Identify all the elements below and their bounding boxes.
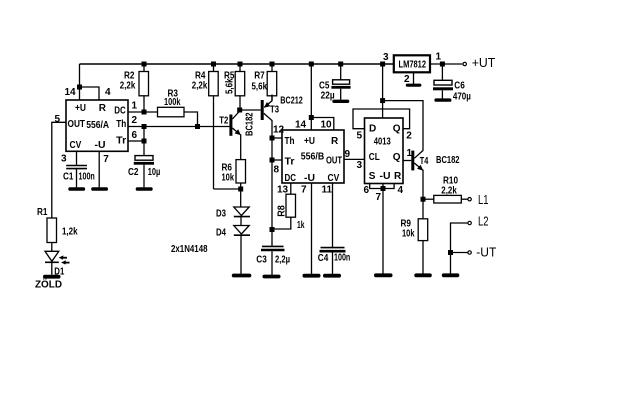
- resistor R10: [423, 195, 468, 203]
- node out-C6: [440, 62, 445, 67]
- svg-text:3: 3: [61, 154, 67, 165]
- capacitor C2 10u: [134, 156, 154, 188]
- svg-text:Tr: Tr: [285, 157, 295, 168]
- svg-text:BC182: BC182: [436, 155, 460, 166]
- svg-text:10µ: 10µ: [148, 167, 161, 178]
- svg-text:Th: Th: [285, 136, 295, 147]
- ground C6: [434, 98, 451, 101]
- svg-text:S: S: [369, 171, 376, 182]
- diode D4: [234, 226, 250, 275]
- node Tr: [142, 139, 147, 144]
- svg-text:1: 1: [132, 101, 138, 112]
- svg-text:DC: DC: [114, 106, 126, 117]
- svg-text:14: 14: [65, 87, 77, 98]
- svg-text:5: 5: [357, 131, 363, 142]
- svg-text:100n: 100n: [79, 171, 95, 182]
- node rail-R4: [211, 62, 216, 67]
- svg-text:7: 7: [301, 185, 307, 196]
- svg-text:BC182: BC182: [245, 112, 256, 136]
- wire : Tr pin6 stub: [128, 140, 144, 142]
- svg-text:T2: T2: [219, 115, 228, 126]
- regulator U3 LM7812: [394, 55, 430, 72]
- svg-text:6: 6: [132, 130, 138, 141]
- svg-text:2,2µ: 2,2µ: [275, 255, 290, 266]
- IC U1 556/A timer: [66, 100, 128, 151]
- svg-text:BC212: BC212: [280, 95, 303, 106]
- IC U2 556/B timer: [282, 130, 344, 184]
- wire : Th pin2 line to T2 base: [128, 126, 230, 128]
- svg-text:3: 3: [383, 52, 389, 63]
- svg-text:CV: CV: [70, 140, 82, 151]
- wire : 556/B -U pin7 stub: [311, 183, 313, 274]
- svg-text:DC: DC: [285, 173, 297, 184]
- node 556/A supply jog: [77, 85, 82, 90]
- wire : to Tr pin8: [272, 159, 282, 161]
- svg-text:2,2k: 2,2k: [192, 81, 208, 92]
- svg-text:7: 7: [376, 192, 382, 203]
- svg-text:4: 4: [398, 185, 404, 196]
- svg-text:2: 2: [132, 115, 138, 126]
- svg-text:L2: L2: [478, 214, 489, 228]
- capacitor C3 2,2u: [261, 246, 285, 274]
- node rail-C5: [338, 62, 343, 67]
- transistor T2 BC182 NPN: [229, 111, 241, 159]
- svg-text:4013: 4013: [374, 137, 391, 148]
- wire : R4 bottom to R6 node: [214, 188, 242, 190]
- ground R9: [414, 273, 432, 277]
- svg-text:9: 9: [345, 149, 351, 160]
- node rail-R2: [142, 62, 147, 67]
- node Th-R3: [195, 124, 200, 129]
- svg-text:-U: -U: [95, 140, 106, 151]
- svg-text:2,2k: 2,2k: [441, 186, 457, 197]
- svg-text:2: 2: [404, 74, 410, 85]
- svg-text:+U: +U: [75, 103, 86, 114]
- ground 556/B pin7: [303, 274, 321, 278]
- diode D3: [234, 207, 250, 226]
- svg-text:5: 5: [55, 114, 61, 125]
- node rail-556B: [309, 62, 314, 67]
- wire : DC pin1 to R3: [128, 111, 158, 113]
- wire : jog to pin4 R: [80, 87, 100, 100]
- wire : +V top rail left segment: [80, 63, 394, 65]
- wire : node to T3 base: [240, 109, 261, 111]
- wire : LM7812 pin2 stub: [413, 72, 415, 84]
- svg-text:3: 3: [357, 160, 363, 171]
- svg-text:R: R: [99, 103, 107, 114]
- resistor R5: [235, 64, 245, 110]
- capacitor C4 100n: [320, 183, 346, 274]
- terminal +UT: [463, 62, 466, 65]
- svg-text:R1: R1: [37, 207, 48, 218]
- wire : 556/B OUT pin9 to 4013 CL pin3: [344, 158, 365, 160]
- wire : L2 to ground node: [451, 223, 468, 253]
- ground D1: [43, 275, 61, 279]
- svg-text:D: D: [369, 123, 376, 134]
- node L2/-UT: [448, 250, 453, 255]
- node 4013 supply / T4 collector branch: [380, 98, 385, 103]
- ground C3: [263, 275, 281, 279]
- wire : to Th pin12: [272, 137, 282, 139]
- ground C2: [136, 187, 153, 191]
- svg-text:T4: T4: [420, 156, 429, 167]
- svg-text:10k: 10k: [222, 173, 235, 184]
- transistor T3 BC212 PNP: [261, 95, 272, 247]
- wire : jog to pin10 R: [311, 118, 334, 131]
- svg-text:1k: 1k: [297, 220, 305, 231]
- svg-text:7: 7: [103, 154, 109, 165]
- svg-text:2x1N4148: 2x1N4148: [171, 244, 208, 255]
- wire : -UT to ground: [451, 253, 468, 274]
- svg-text:100n: 100n: [334, 253, 350, 264]
- svg-text:L1: L1: [478, 193, 489, 207]
- svg-text:100k: 100k: [164, 97, 181, 108]
- svg-text:Q: Q: [393, 152, 401, 163]
- ground C1: [68, 187, 85, 191]
- capacitor C1 100n: [66, 151, 87, 187]
- svg-text:2,2k: 2,2k: [120, 81, 136, 92]
- svg-text:5,6k: 5,6k: [252, 82, 268, 93]
- node DC-R2: [142, 110, 147, 115]
- svg-text:C2: C2: [128, 167, 139, 178]
- ground 556/A pin7: [91, 187, 108, 191]
- node R6-R4-diodes: [238, 187, 243, 192]
- resistor R3: [158, 107, 198, 126]
- node T3-Tr 556/B: [270, 158, 275, 163]
- svg-text:14: 14: [295, 120, 307, 131]
- node T3-Th 556/B: [270, 136, 275, 141]
- svg-text:Q: Q: [393, 123, 401, 134]
- transistor T4 BC182 NPN: [411, 151, 423, 200]
- wire : rail down to 4013 VDD: [382, 64, 384, 118]
- node Th-vert: [142, 124, 147, 129]
- svg-text:5,6k: 5,6k: [225, 78, 236, 94]
- svg-text:556/B: 556/B: [301, 151, 325, 162]
- svg-text:R8: R8: [277, 205, 288, 217]
- IC U4 4013 flip-flop: [365, 118, 404, 184]
- resistor R6: [236, 160, 246, 207]
- svg-text:D4: D4: [216, 228, 226, 239]
- ground C5: [332, 100, 349, 103]
- svg-text:C3: C3: [256, 255, 267, 266]
- wire : 556/A -U pin7 stub: [98, 151, 100, 187]
- wire : 4013 feedback Q to D over the top: [353, 109, 410, 129]
- svg-text:4: 4: [105, 87, 111, 98]
- svg-text:C6: C6: [454, 81, 465, 92]
- resistor R1: [47, 218, 57, 251]
- wire : Th/Tr junction down to C2: [143, 127, 145, 156]
- wire : +V rail right of regulator to +UT terminal: [431, 63, 463, 65]
- svg-text:1,2k: 1,2k: [62, 227, 78, 238]
- svg-text:2: 2: [406, 131, 412, 142]
- svg-text:C1: C1: [63, 171, 74, 182]
- svg-text:-U: -U: [304, 173, 315, 184]
- wire : 4013 S pin6 and R pin4 tie bar: [370, 184, 394, 189]
- ground LM7812 pin2: [406, 84, 422, 87]
- svg-text:ZÖLD: ZÖLD: [35, 278, 62, 291]
- svg-text:Tr: Tr: [116, 136, 126, 147]
- terminal -UT: [468, 251, 471, 254]
- svg-text:1: 1: [436, 52, 442, 63]
- svg-text:R7: R7: [254, 71, 265, 82]
- svg-text:C4: C4: [318, 253, 329, 264]
- resistor R4: [209, 64, 219, 189]
- LED D1: [45, 251, 70, 274]
- capacitor C6 470u: [433, 64, 453, 99]
- node T4 emitter / R10 / R9: [421, 197, 426, 202]
- svg-text:OUT: OUT: [326, 155, 342, 166]
- svg-text:CV: CV: [328, 173, 340, 184]
- svg-text:-UT: -UT: [476, 245, 496, 259]
- wire : 4013 -U pin7 down to ground: [382, 184, 384, 274]
- node 556/B supply jog: [309, 115, 314, 120]
- svg-text:R: R: [331, 136, 339, 147]
- wire : rail down to 556/A pin14: [79, 64, 81, 100]
- node S/R/-U tie: [381, 186, 386, 191]
- capacitor C5 22u: [331, 64, 350, 100]
- ground -UT: [442, 273, 460, 277]
- svg-text:R: R: [394, 171, 402, 182]
- svg-text:LM7812: LM7812: [399, 60, 427, 71]
- node rail-R7: [270, 62, 275, 67]
- terminal L2: [468, 221, 471, 224]
- svg-text:10k: 10k: [402, 228, 415, 239]
- svg-text:T3: T3: [270, 105, 279, 116]
- svg-text:6: 6: [364, 185, 370, 196]
- ground C4: [323, 274, 341, 278]
- ground diodes: [232, 274, 252, 278]
- terminal L1: [468, 198, 471, 201]
- svg-text:+U: +U: [304, 136, 315, 147]
- svg-text:22µ: 22µ: [321, 90, 335, 101]
- node rail-R5: [238, 62, 243, 67]
- svg-text:-U: -U: [380, 171, 391, 182]
- svg-text:OUT: OUT: [68, 119, 86, 130]
- ground 4013: [374, 273, 393, 277]
- svg-text:10: 10: [321, 120, 333, 131]
- node rail-4013: [380, 62, 385, 67]
- svg-text:D3: D3: [216, 209, 226, 220]
- resistor R8: [272, 183, 296, 229]
- resistor R7: [267, 64, 277, 101]
- resistor R2: [139, 64, 149, 112]
- node R8-C3: [270, 227, 275, 232]
- resistor R9: [418, 199, 428, 273]
- wire : rail down to 556/B pin14: [310, 64, 312, 130]
- svg-text:Th: Th: [116, 119, 126, 130]
- wire : 4013 Q pin1 to T4 base: [403, 160, 411, 162]
- svg-text:470µ: 470µ: [453, 92, 471, 103]
- node R5-T2-T3: [237, 108, 242, 113]
- svg-text:556/A: 556/A: [86, 120, 109, 131]
- svg-text:8: 8: [274, 165, 280, 176]
- svg-text:11: 11: [322, 185, 333, 196]
- svg-text:CL: CL: [369, 152, 380, 163]
- wire : branch to T4 collector: [383, 101, 423, 151]
- wire : OUT pin5 to R1: [52, 122, 66, 218]
- svg-text:+UT: +UT: [472, 55, 496, 70]
